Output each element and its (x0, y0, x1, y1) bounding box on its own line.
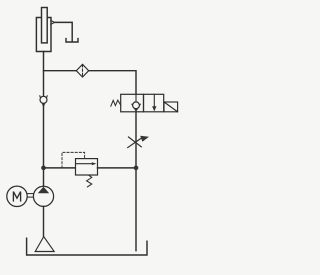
drain arrow (51, 21, 55, 25)
valve spring (111, 100, 121, 106)
valve position 1: check (132, 94, 140, 112)
cylinder rod (42, 8, 48, 43)
suction strainer triangle (35, 237, 54, 252)
wire: pump suction (43, 206, 45, 236)
valve position 2: flow arrow (152, 94, 156, 111)
check valve V1 (main line) (40, 96, 47, 107)
directional valve body (121, 94, 164, 112)
wire: drain line (55, 22, 73, 40)
solenoid (164, 102, 178, 112)
relief valve internal arrow (76, 162, 96, 165)
relief pilot dashed line (62, 152, 85, 168)
wire: branch to filter and right bus top (44, 71, 137, 95)
motor M (7, 186, 27, 206)
wire: relief outlet (98, 167, 137, 169)
cylinder barrel (36, 18, 51, 52)
drain mini tank (66, 39, 78, 42)
pump P (33, 186, 53, 206)
relief valve body (76, 159, 98, 175)
wire: relief supply (44, 167, 76, 169)
filter F1 (76, 64, 88, 77)
relief spring (87, 175, 92, 187)
wire: cylinder down to pump (43, 52, 45, 187)
reservoir (27, 238, 147, 255)
wire: right bus valve to tank (135, 112, 137, 251)
variable throttle (X with arrow) (128, 136, 149, 148)
junction dot (relief outlet) (134, 166, 139, 171)
junction dot (pump outlet tee) (41, 166, 46, 171)
shaft (27, 194, 33, 198)
